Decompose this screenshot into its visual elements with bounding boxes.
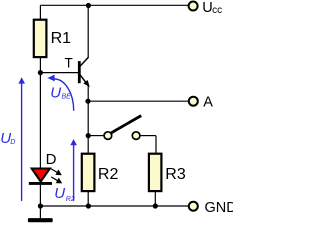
wire: switch right lead [141, 135, 156, 137]
junction: emitter / switch node [86, 133, 91, 138]
switch left contact [104, 132, 112, 140]
wire: R1 bottom to base node [39, 57, 41, 73]
voltage arrow UBE arrowhead [48, 75, 55, 82]
wire: R2 bottom stub [87, 191, 89, 206]
svg-text:R3: R3 [165, 166, 186, 183]
wire: Ucc top rail [40, 4, 188, 6]
svg-text:BE: BE [62, 94, 72, 101]
voltage arrow UBE arc [54, 79, 73, 111]
wire: ground stub [39, 206, 41, 218]
junction: base node [38, 70, 43, 75]
svg-text:U: U [50, 84, 61, 101]
label UD [0, 130, 15, 147]
wire: R1 top stub [39, 5, 41, 19]
transistor T base bar [78, 61, 81, 83]
transistor T collector diagonal [80, 57, 88, 66]
resistor R3 [149, 154, 162, 191]
wire: switch to R3 top [155, 136, 157, 154]
wire: emitter vertical to R2 [87, 85, 89, 153]
switch right contact [132, 132, 140, 140]
label UBE [50, 84, 71, 101]
svg-text:GND: GND [205, 200, 234, 216]
wire: base node down to LED [39, 73, 41, 169]
junction: LED / gnd rail [38, 203, 43, 208]
wire: R3 bottom stub [154, 191, 156, 206]
label UR2 [54, 185, 75, 203]
svg-text:R2: R2 [66, 196, 75, 203]
LED light arrow 1 [51, 169, 62, 176]
resistor R1 [34, 20, 47, 57]
svg-text:D: D [46, 151, 57, 168]
voltage arrow UR2 arrowhead [70, 139, 77, 145]
LED D cathode bar [29, 182, 52, 185]
LED light arrow 2 [51, 177, 62, 184]
junction: emitter / A node [85, 99, 90, 104]
svg-text:U: U [54, 185, 65, 202]
wire: collector vertical [87, 5, 89, 58]
svg-text:R2: R2 [98, 166, 119, 183]
wire: base wire [40, 72, 78, 74]
voltage arrow UD line [21, 82, 23, 201]
LED D triangle [32, 169, 50, 182]
wire: node A horizontal [88, 100, 188, 102]
svg-text:cc: cc [212, 5, 222, 16]
terminal Ucc [189, 2, 198, 11]
voltage arrow UR2 line [73, 144, 75, 200]
terminal GND [189, 202, 198, 211]
switch lever [111, 116, 141, 133]
svg-text:A: A [203, 95, 213, 111]
voltage arrow UD arrowhead [18, 77, 25, 83]
junction: collector / Ucc rail [86, 3, 91, 8]
svg-text:T: T [65, 56, 73, 71]
wire: gnd rail [40, 205, 188, 207]
svg-text:R1: R1 [51, 30, 72, 47]
junction: R3 / gnd rail [153, 203, 158, 208]
wire: LED cathode to gnd rail [39, 185, 41, 206]
resistor R2 [82, 154, 95, 191]
wire: switch left lead [88, 135, 103, 137]
terminal A [189, 97, 198, 106]
label Ucc [202, 0, 222, 16]
svg-text:D: D [10, 139, 15, 146]
junction: R2 / gnd rail [86, 203, 91, 208]
ground symbol [28, 218, 53, 222]
transistor T emitter diagonal [80, 75, 87, 84]
transistor T emitter arrowhead [83, 80, 89, 87]
